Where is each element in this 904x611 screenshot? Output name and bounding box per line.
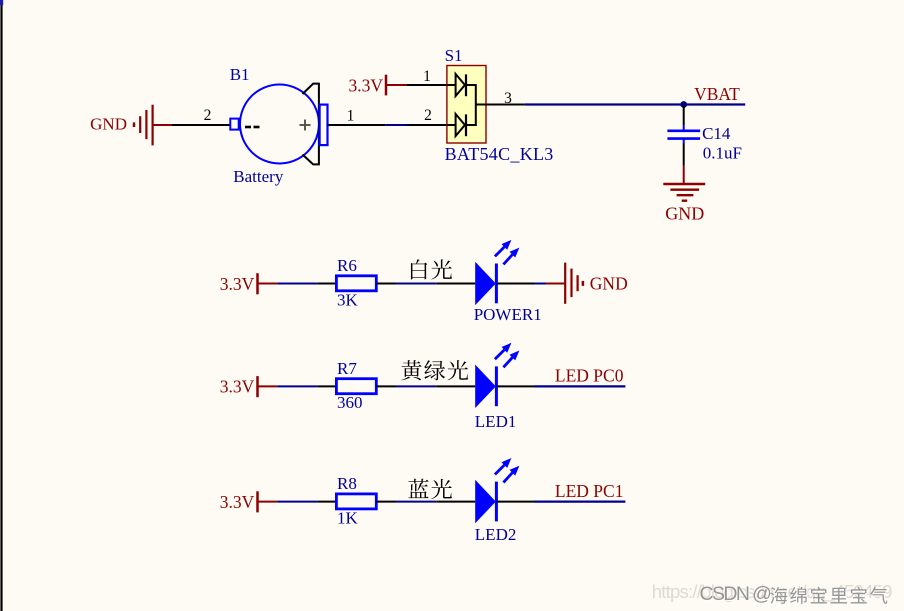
LED POWER1: [474, 240, 542, 324]
LED LED1: [475, 343, 520, 431]
svg-text:1K: 1K: [337, 508, 359, 527]
wire net LED PC0: [535, 385, 626, 387]
net label LED PC1: [555, 481, 624, 501]
watermark CSDN: [652, 581, 892, 606]
svg-text:Battery: Battery: [233, 167, 284, 186]
power symbol 3.3V (row R7): [220, 376, 278, 397]
wire net from 3.3V: [277, 283, 317, 285]
wire R6 pin 2: [376, 283, 395, 285]
wire POWER1 cathode pin: [496, 283, 534, 285]
svg-text:0.1uF: 0.1uF: [703, 144, 742, 163]
wire POWER1 anode pin: [436, 283, 475, 285]
svg-text:B1: B1: [230, 65, 250, 84]
svg-text:1: 1: [347, 108, 355, 125]
wire LED1 anode pin: [436, 385, 475, 387]
svg-text:3.3V: 3.3V: [348, 75, 383, 95]
svg-text:R6: R6: [337, 256, 357, 275]
LED LED2: [475, 458, 520, 544]
wire net VBAT: [525, 103, 745, 105]
wire net resistor to LED: [396, 283, 437, 285]
power symbol 3.3V (top): [348, 75, 406, 96]
sheet edge border: [0, 0, 3, 611]
wire LED2 cathode pin: [496, 501, 534, 503]
wire S1 pin 2: [408, 124, 448, 126]
wire battery pin 2: [172, 124, 230, 126]
pin number 2 (S1): [424, 107, 432, 124]
svg-text:3.3V: 3.3V: [220, 377, 255, 397]
svg-text:R8: R8: [337, 474, 357, 493]
diode array S1 BAT54C_KL3: [445, 46, 554, 164]
resistor R7 360: [336, 359, 376, 412]
svg-text:GND: GND: [590, 274, 628, 294]
wire R8 pin 2: [376, 501, 395, 503]
svg-text:3.3V: 3.3V: [220, 492, 255, 512]
wire S1 pin 3: [486, 104, 525, 106]
svg-text:2: 2: [204, 107, 212, 124]
power symbol GND (battery minus): [90, 105, 172, 146]
svg-text:S1: S1: [445, 46, 463, 65]
net label LED PC0: [555, 366, 624, 386]
wire net LED to GND: [535, 283, 547, 285]
svg-text:3: 3: [504, 90, 512, 107]
svg-text:2: 2: [424, 107, 432, 124]
resistor R6 3K: [336, 256, 376, 309]
svg-text:360: 360: [337, 393, 363, 412]
power symbol GND (row POWER1): [546, 263, 628, 304]
svg-text:LED1: LED1: [475, 412, 517, 431]
svg-text:POWER1: POWER1: [474, 305, 542, 324]
wire net resistor to LED: [396, 385, 437, 387]
wire net resistor to LED: [396, 501, 437, 503]
svg-text:LED2: LED2: [475, 525, 517, 544]
svg-text:1: 1: [423, 68, 431, 85]
svg-text:GND: GND: [665, 204, 704, 224]
power symbol 3.3V (row R8): [220, 491, 278, 512]
junction node VBAT: [680, 101, 687, 108]
wire R8 pin 1: [317, 501, 336, 503]
wire net from 3.3V: [277, 385, 317, 387]
svg-text:GND: GND: [90, 115, 127, 134]
pin number 1 (S1): [423, 68, 431, 85]
label 蓝光: [408, 479, 452, 499]
resistor R8 1K: [336, 474, 376, 527]
capacitor C14: [667, 105, 742, 166]
svg-text:BAT54C_KL3: BAT54C_KL3: [445, 144, 554, 164]
net label VBAT: [694, 84, 740, 104]
svg-text:C14: C14: [702, 124, 731, 143]
wire R7 pin 2: [376, 385, 395, 387]
svg-text:3.3V: 3.3V: [220, 274, 255, 294]
svg-text:CSDN @: CSDN @: [700, 583, 772, 605]
pin number 3 (S1): [504, 90, 512, 107]
pin number 2 (battery): [204, 107, 212, 124]
wire net LED PC1: [535, 501, 626, 503]
battery B1: [230, 65, 328, 186]
svg-text:LED PC1: LED PC1: [555, 481, 624, 501]
svg-text:3K: 3K: [337, 290, 359, 309]
wire LED1 cathode pin: [496, 385, 534, 387]
wire R7 pin 1: [317, 385, 336, 387]
svg-text:https:: https:: [652, 581, 693, 602]
svg-text:LED PC0: LED PC0: [555, 366, 624, 386]
wire S1 internal junction: [476, 84, 486, 126]
wire R6 pin 1: [317, 283, 336, 285]
svg-text:R7: R7: [337, 359, 357, 378]
diode S1-A: [447, 74, 476, 96]
label 黄绿光: [401, 360, 468, 380]
diode S1-B: [447, 114, 476, 136]
label 白光: [411, 259, 452, 279]
wire battery pin 1: [328, 124, 386, 126]
wire S1 pin 1: [406, 84, 447, 86]
wire net battery to S1: [386, 124, 408, 126]
wire LED2 anode pin: [436, 501, 475, 503]
power symbol GND (C14): [663, 166, 705, 224]
svg-text:VBAT: VBAT: [694, 84, 740, 104]
pin number 1 (battery): [347, 108, 355, 125]
wire net from 3.3V: [277, 501, 317, 503]
power symbol 3.3V (row R6): [220, 273, 278, 294]
